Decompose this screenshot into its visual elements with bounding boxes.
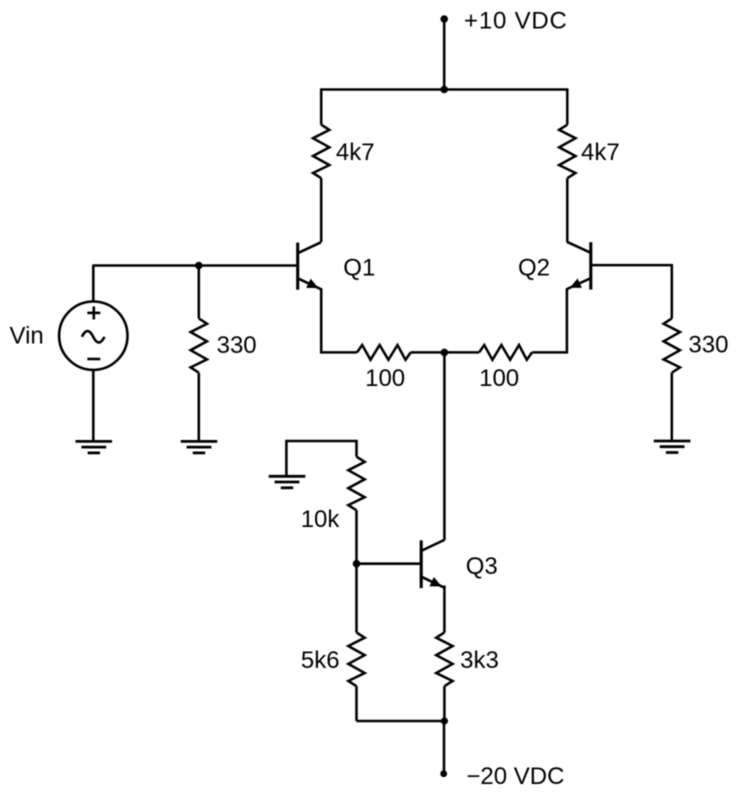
wire Vin bottom lead bbox=[92, 370, 95, 442]
wire 4k7-left to Q1 collector bbox=[320, 178, 323, 242]
wire rail to R-4k7-left bbox=[320, 88, 323, 124]
svg-text:Q1: Q1 bbox=[343, 255, 375, 282]
svg-text:Q3: Q3 bbox=[466, 553, 498, 580]
transistor Q1 bbox=[296, 243, 299, 290]
resistor 4k7 right bbox=[559, 125, 575, 179]
svg-text:330: 330 bbox=[688, 332, 728, 359]
wire 100-left to tail junction bbox=[411, 351, 479, 354]
wire 330-left to ground bbox=[198, 373, 201, 442]
wire top supply rail bbox=[321, 88, 567, 91]
svg-text:4k7: 4k7 bbox=[336, 139, 375, 166]
svg-text:Vin: Vin bbox=[10, 322, 44, 349]
svg-text:5k6: 5k6 bbox=[301, 647, 340, 674]
wire Q3 emitter to 3k3 bbox=[443, 586, 446, 633]
node +10 VDC terminal bbox=[440, 15, 448, 23]
resistor 3k3 bbox=[436, 633, 452, 687]
svg-text:+10 VDC: +10 VDC bbox=[464, 7, 568, 34]
svg-text:330: 330 bbox=[217, 332, 257, 359]
resistor 330 right bbox=[664, 318, 680, 372]
wire 330-right to ground bbox=[671, 373, 674, 441]
wire base junction to 330-left bbox=[198, 266, 201, 319]
svg-text:3k3: 3k3 bbox=[460, 647, 499, 674]
wire Q1 emitter to R-100-left bbox=[321, 288, 357, 352]
node Q1 base junction bbox=[195, 262, 203, 270]
wire 100-right to Q2 emitter bbox=[532, 288, 567, 352]
svg-text:Q2: Q2 bbox=[518, 255, 550, 282]
transistor Q2 bbox=[589, 242, 592, 289]
wire Q2 base to 330-right bbox=[671, 264, 674, 318]
wire base junction to 5k6 bbox=[355, 564, 358, 633]
ground 330 right bbox=[654, 440, 691, 443]
resistor 100 right bbox=[479, 345, 532, 360]
resistor 5k6 bbox=[348, 633, 364, 687]
svg-text:−20 VDC: −20 VDC bbox=[466, 763, 564, 790]
wire Vin top lead bbox=[92, 265, 95, 303]
svg-text:4k7: 4k7 bbox=[581, 139, 620, 166]
node rail junction bbox=[440, 86, 448, 94]
wire bottom rail bbox=[357, 720, 445, 723]
svg-text:100: 100 bbox=[479, 365, 519, 392]
wire to -20V terminal bbox=[443, 721, 446, 774]
node -20 VDC terminal bbox=[440, 770, 447, 777]
transistor Q3 bbox=[420, 540, 423, 588]
wire Q3 base bbox=[357, 562, 421, 565]
wire +10V supply vertical bbox=[443, 19, 446, 90]
wire Q1 base bbox=[93, 264, 296, 267]
wire 3k3 to bottom rail bbox=[443, 686, 446, 721]
wire 10k to Q3 base junction bbox=[355, 510, 358, 563]
svg-text:100: 100 bbox=[365, 365, 405, 392]
resistor 330 left bbox=[191, 318, 207, 372]
wire 4k7-right to Q2 collector bbox=[566, 178, 569, 242]
wire 5k6 to bottom rail bbox=[355, 686, 358, 721]
resistor 4k7 left bbox=[313, 125, 329, 179]
node Q3 base junction bbox=[353, 560, 361, 568]
wire rail to R-4k7-right bbox=[566, 88, 569, 124]
wire Q2 base bbox=[592, 264, 672, 267]
wire ground to R-10k bbox=[286, 441, 356, 476]
node emitter tail junction bbox=[441, 349, 449, 357]
node bottom junction bbox=[441, 717, 448, 724]
wire tail to Q3 collector bbox=[443, 352, 446, 540]
resistor 100 left bbox=[357, 345, 411, 360]
ground 330 left bbox=[181, 440, 218, 443]
resistor 10k bbox=[348, 457, 364, 511]
ground 10k bbox=[269, 475, 306, 478]
source Vin bbox=[59, 302, 127, 370]
svg-text:10k: 10k bbox=[301, 506, 341, 533]
ground Vin bbox=[76, 440, 113, 443]
